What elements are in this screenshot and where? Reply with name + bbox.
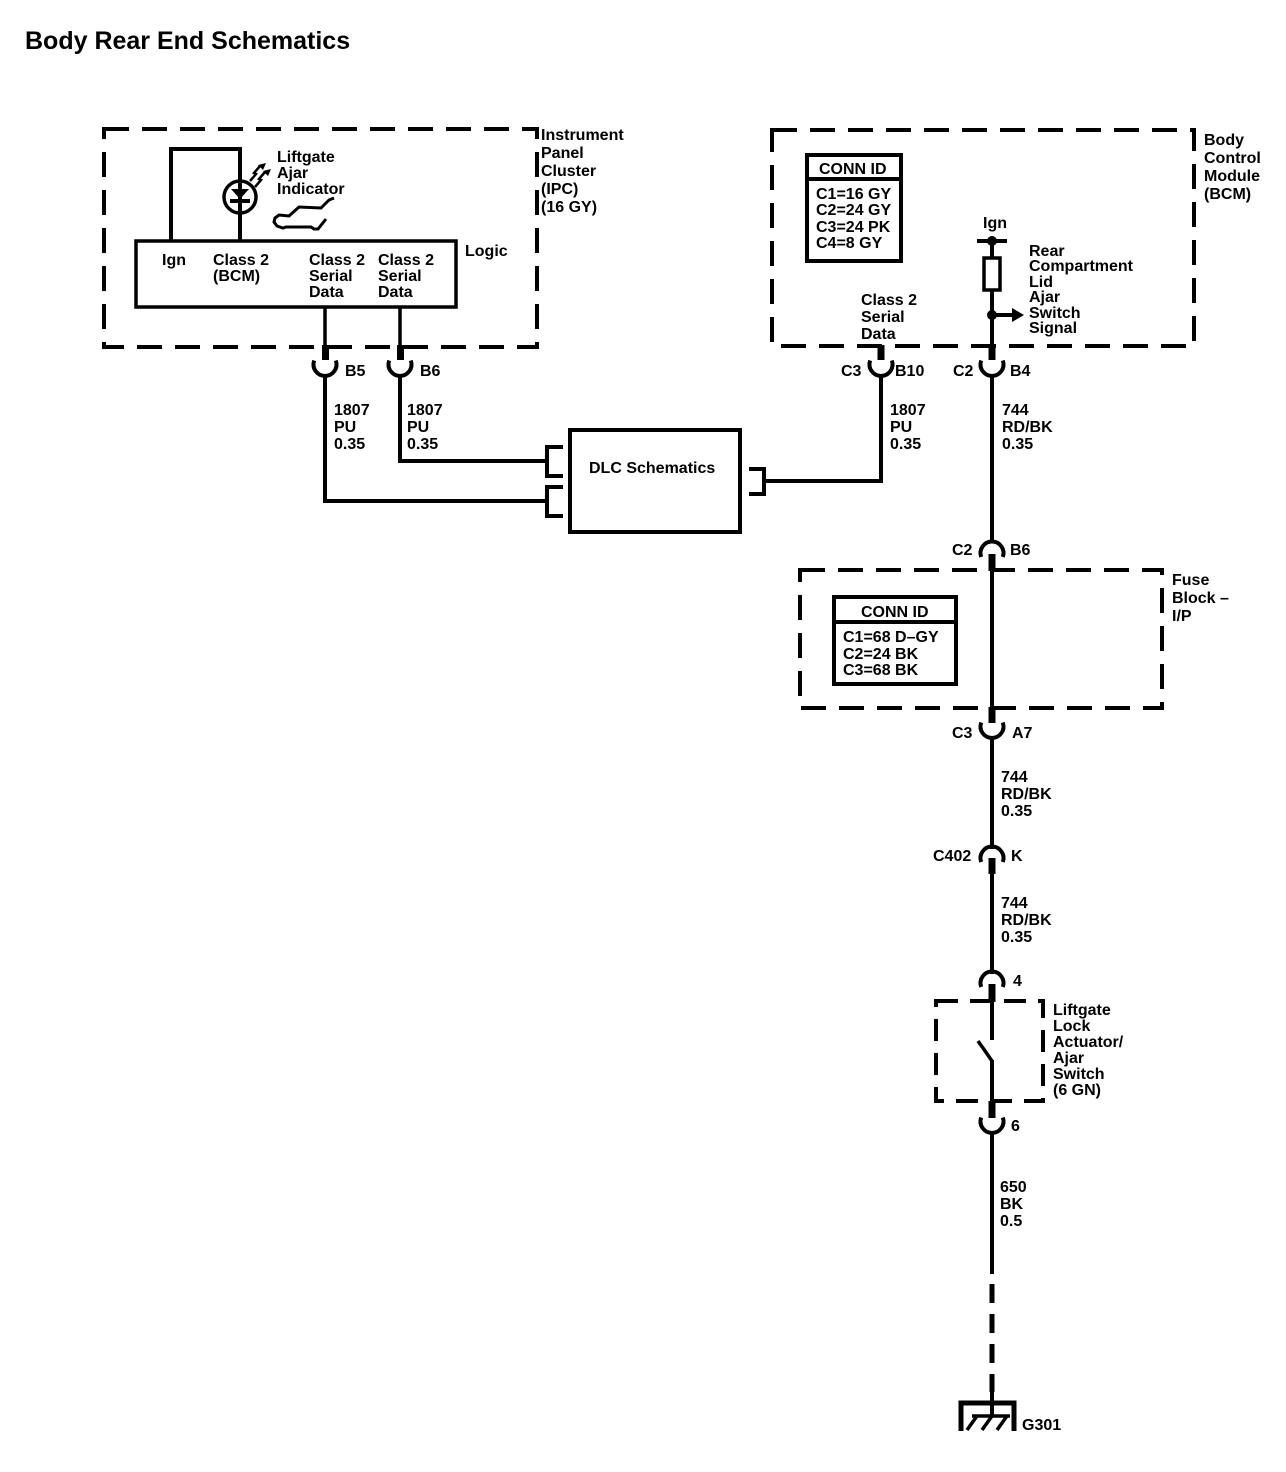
svg-text:6: 6	[1011, 1118, 1020, 1135]
svg-text:744: 744	[1002, 402, 1029, 419]
svg-text:Lock: Lock	[1053, 1018, 1090, 1035]
connector pin B5	[314, 345, 366, 380]
light arrow 2	[255, 169, 271, 187]
svg-text:(IPC): (IPC)	[541, 181, 578, 198]
svg-text:C1=68 D–GY: C1=68 D–GY	[843, 629, 939, 646]
connector pin A7	[952, 707, 1033, 742]
svg-text:PU: PU	[334, 419, 356, 436]
svg-text:Compartment: Compartment	[1029, 258, 1134, 275]
svg-text:Body Rear End Schematics: Body Rear End Schematics	[25, 27, 350, 55]
svg-text:Logic: Logic	[465, 243, 508, 260]
svg-text:RD/BK: RD/BK	[1002, 419, 1053, 436]
svg-text:C2: C2	[952, 542, 973, 559]
wire C402 down to liftgate switch	[990, 873, 994, 974]
DLC Schematics box	[570, 430, 740, 532]
svg-text:(6 GN): (6 GN)	[1053, 1082, 1101, 1099]
Fuse CONN ID table	[834, 597, 956, 684]
logic box pin labels	[162, 252, 434, 301]
Instrument Panel Cluster (IPC) dashed box	[104, 129, 537, 347]
Liftgate Lock Actuator label	[1053, 1002, 1124, 1099]
dashed wire to ground	[990, 1284, 995, 1392]
svg-text:PU: PU	[890, 419, 912, 436]
svg-text:G301: G301	[1022, 1417, 1061, 1434]
Fuse Block label	[1172, 572, 1229, 625]
Body Control Module (BCM) dashed box	[772, 130, 1194, 346]
svg-text:Instrument: Instrument	[541, 127, 624, 144]
svg-text:0.35: 0.35	[407, 436, 438, 453]
svg-text:Block –: Block –	[1172, 590, 1229, 607]
light arrow 1	[250, 163, 266, 181]
wire label 1807 PU 0.35 (B10)	[890, 402, 926, 453]
svg-text:Fuse: Fuse	[1172, 572, 1209, 589]
svg-text:Ign: Ign	[162, 252, 186, 269]
wire B4 down to fuse block	[990, 375, 994, 543]
connector pin B6	[389, 345, 441, 380]
logic box U1	[136, 241, 456, 307]
connector pin 4	[981, 972, 1023, 1002]
svg-text:PU: PU	[407, 419, 429, 436]
svg-text:Ajar: Ajar	[1029, 289, 1060, 306]
Fuse Block I/P dashed box	[800, 570, 1162, 708]
svg-text:Cluster: Cluster	[541, 163, 596, 180]
BCM label	[1204, 132, 1261, 203]
svg-text:Class 2: Class 2	[378, 252, 434, 269]
svg-text:650: 650	[1000, 1179, 1027, 1196]
Rear Compartment Lid Ajar Switch Signal label	[1029, 243, 1134, 337]
svg-text:I/P: I/P	[1172, 608, 1192, 625]
wire from logic pin B5	[323, 307, 327, 347]
svg-text:C4=8 GY: C4=8 GY	[816, 235, 883, 252]
svg-text:(BCM): (BCM)	[213, 268, 260, 285]
ground G301	[961, 1392, 1061, 1434]
svg-text:Serial: Serial	[378, 268, 422, 285]
svg-text:Data: Data	[309, 284, 344, 301]
connector C2 B6 (fuse block top)	[952, 542, 1031, 571]
wire A7 down to C402	[990, 737, 994, 849]
svg-text:C402: C402	[933, 848, 971, 865]
svg-text:C1=16 GY: C1=16 GY	[816, 186, 891, 203]
svg-text:Signal: Signal	[1029, 320, 1077, 337]
wire label 650 BK 0.5	[1000, 1179, 1027, 1230]
svg-text:0.35: 0.35	[1001, 803, 1032, 820]
svg-text:Class 2: Class 2	[861, 292, 917, 309]
wire B6 to DLC upper port	[400, 375, 547, 461]
svg-text:Ign: Ign	[983, 215, 1007, 232]
svg-text:744: 744	[1001, 895, 1028, 912]
svg-text:Data: Data	[861, 326, 896, 343]
DLC left port bracket upper	[547, 447, 563, 476]
wire DLC right port to B10	[764, 375, 881, 481]
svg-text:C3: C3	[952, 725, 973, 742]
svg-text:Serial: Serial	[861, 309, 905, 326]
wire label 744 RD/BK 0.35 (B4)	[1002, 402, 1053, 453]
svg-text:K: K	[1011, 848, 1023, 865]
svg-text:(16 GY): (16 GY)	[541, 199, 597, 216]
svg-text:B5: B5	[345, 363, 366, 380]
svg-text:1807: 1807	[334, 402, 370, 419]
wire label 744 RD/BK 0.35 (C402)	[1001, 895, 1052, 946]
connector pin 6	[981, 1101, 1021, 1135]
wire from logic pin B6	[398, 307, 402, 347]
svg-text:B4: B4	[1010, 363, 1031, 380]
svg-text:Serial: Serial	[309, 268, 353, 285]
svg-text:A7: A7	[1012, 725, 1033, 742]
svg-text:Class 2: Class 2	[213, 252, 269, 269]
svg-text:B10: B10	[895, 363, 924, 380]
svg-text:DLC Schematics: DLC Schematics	[589, 460, 715, 477]
svg-text:Panel: Panel	[541, 145, 584, 162]
svg-text:0.35: 0.35	[334, 436, 365, 453]
connector pin B10	[841, 345, 924, 380]
svg-text:RD/BK: RD/BK	[1001, 912, 1052, 929]
svg-text:744: 744	[1001, 769, 1028, 786]
svg-text:C3=24 PK: C3=24 PK	[816, 219, 891, 236]
Ign terminal bar	[977, 239, 1007, 243]
signal arrow	[992, 308, 1024, 322]
connector pin B4	[953, 345, 1031, 380]
svg-text:Control: Control	[1204, 150, 1261, 167]
svg-text:Liftgate: Liftgate	[277, 149, 335, 166]
svg-text:Actuator/: Actuator/	[1053, 1034, 1124, 1051]
Liftgate Ajar Indicator label	[277, 149, 345, 198]
svg-text:Module: Module	[1204, 168, 1260, 185]
junction dot signal node	[987, 310, 997, 320]
connector C402 K	[933, 847, 1023, 874]
wire through fuse block	[990, 570, 994, 708]
wire label 744 RD/BK 0.35 (A7)	[1001, 769, 1052, 820]
svg-text:C2=24 GY: C2=24 GY	[816, 202, 891, 219]
wire Ign bar to resistor	[990, 241, 994, 258]
svg-text:B6: B6	[1010, 542, 1031, 559]
wire 650 BK down	[990, 1131, 994, 1274]
svg-text:BK: BK	[1000, 1196, 1024, 1213]
svg-text:0.35: 0.35	[1001, 929, 1032, 946]
svg-text:Ajar: Ajar	[1053, 1050, 1084, 1067]
resistor (pull-up)	[984, 258, 1000, 290]
svg-text:Body: Body	[1204, 132, 1244, 149]
svg-text:4: 4	[1013, 973, 1022, 990]
svg-text:0.35: 0.35	[1002, 436, 1033, 453]
svg-text:Liftgate: Liftgate	[1053, 1002, 1111, 1019]
indicator lamp (LED) Liftgate Ajar Indicator	[224, 181, 256, 213]
svg-text:(BCM): (BCM)	[1204, 186, 1251, 203]
IPC label	[541, 127, 624, 216]
BCM CONN ID table	[807, 155, 901, 261]
svg-text:Class 2: Class 2	[309, 252, 365, 269]
car liftgate icon	[274, 198, 334, 229]
svg-text:RD/BK: RD/BK	[1001, 786, 1052, 803]
wire resistor to BCM bottom	[990, 290, 994, 347]
svg-text:Ajar: Ajar	[277, 165, 308, 182]
svg-text:B6: B6	[420, 363, 441, 380]
svg-text:C3=68 BK: C3=68 BK	[843, 662, 919, 679]
svg-text:Switch: Switch	[1053, 1066, 1105, 1083]
switch S1 ajar switch	[978, 1001, 992, 1101]
svg-text:0.35: 0.35	[890, 436, 921, 453]
wire B5 to DLC lower port	[325, 375, 547, 501]
Liftgate Lock Actuator dashed box	[936, 1001, 1043, 1101]
svg-text:CONN ID: CONN ID	[819, 161, 887, 178]
svg-text:0.5: 0.5	[1000, 1213, 1022, 1230]
svg-text:C3: C3	[841, 363, 862, 380]
DLC left port bracket lower	[547, 487, 563, 516]
svg-text:1807: 1807	[890, 402, 926, 419]
svg-text:1807: 1807	[407, 402, 443, 419]
svg-text:Data: Data	[378, 284, 413, 301]
svg-text:CONN ID: CONN ID	[861, 604, 929, 621]
wire Ign loop	[171, 149, 240, 241]
wire label 1807 PU 0.35 (B5)	[334, 402, 370, 453]
svg-text:C2=24 BK: C2=24 BK	[843, 646, 919, 663]
DLC right port bracket	[749, 469, 764, 494]
svg-text:C2: C2	[953, 363, 974, 380]
Class 2 Serial Data label (BCM)	[861, 292, 917, 343]
junction dot on Ign bar	[987, 236, 997, 246]
wire label 1807 PU 0.35 (B6)	[407, 402, 443, 453]
svg-text:Indicator: Indicator	[277, 181, 345, 198]
